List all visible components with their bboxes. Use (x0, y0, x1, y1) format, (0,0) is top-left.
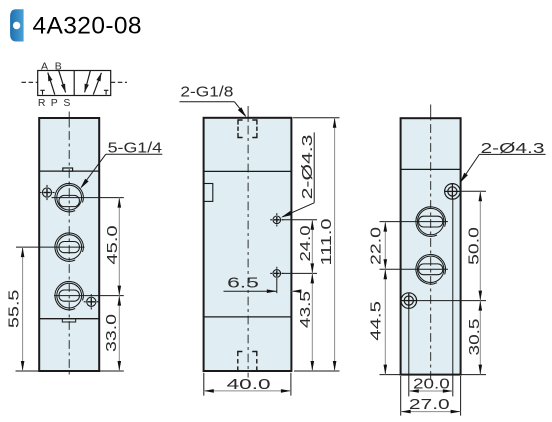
extension line port R (54, 295, 124, 297)
extension line cbore down left (408, 308, 410, 396)
extension line lower hole (282, 272, 317, 274)
svg-text:43.5: 43.5 (297, 291, 314, 328)
counterbore screw hole bottom-left (401, 293, 417, 309)
flow arrow right cell down (85, 71, 91, 93)
middle view centerline (247, 106, 249, 378)
flow arrow left cell up (48, 73, 55, 95)
dimension 20.0 (409, 376, 453, 393)
screw hole upper-left left view (39, 185, 54, 200)
right view section line (401, 168, 461, 170)
flow arrow left cell down (59, 71, 66, 93)
extension line middle top (293, 117, 340, 119)
dimension 45.0 (104, 198, 121, 296)
mount hole lower middle view (270, 267, 283, 280)
svg-text:P: P (51, 97, 58, 109)
left view centerline (68, 112, 70, 375)
pilot dashed line left (22, 81, 38, 83)
svg-text:2-Ø4.3: 2-Ø4.3 (299, 135, 316, 200)
right view body (401, 118, 461, 374)
svg-text:6.5: 6.5 (227, 275, 259, 292)
extension line 27 left (400, 376, 402, 416)
svg-text:24.0: 24.0 (297, 225, 314, 261)
port side view upper (G1/4) (416, 207, 446, 237)
extension line port P (16, 246, 85, 248)
extension line port top right view (380, 221, 449, 223)
counterbore screw hole top-right (445, 184, 461, 200)
svg-text:B: B (55, 60, 62, 72)
svg-text:111.0: 111.0 (318, 219, 335, 266)
exhaust T mark left cell (40, 90, 45, 94)
label 2-Ø4.3 rotated (281, 132, 316, 217)
svg-text:R: R (38, 97, 46, 109)
pilot dashed line right (111, 81, 127, 83)
extension line bottom left corner (203, 373, 205, 396)
port side view lower (G1/4) (416, 255, 446, 285)
dimension 40.0 (204, 376, 291, 393)
dimension 50.0 (466, 191, 483, 300)
middle view bottom section line (204, 316, 292, 318)
hidden port square top (238, 120, 257, 138)
extension line middle bottom (294, 370, 340, 372)
label 5-G1/4 (80, 140, 162, 189)
svg-text:30.5: 30.5 (466, 319, 483, 356)
right view centerline (430, 105, 432, 380)
logo bullet (10, 9, 24, 41)
svg-text:4A320-08: 4A320-08 (33, 13, 142, 40)
port P (G1/4) left view (55, 233, 83, 261)
svg-text:22.0: 22.0 (368, 227, 385, 265)
dimension 27.0 (401, 396, 461, 414)
dimension 22.0 (368, 222, 388, 270)
left view bottom notch (62, 319, 75, 322)
extension line bottom cbore hole (416, 300, 486, 302)
port A (G1/4) left view (55, 183, 83, 211)
left view body (39, 118, 99, 371)
extension line port bottom right view (380, 268, 449, 270)
extension line port A (52, 197, 124, 199)
valve symbol divider (73, 71, 75, 96)
label 2-Ø4.3 right view (460, 140, 546, 183)
mount hole upper middle view (270, 213, 283, 226)
svg-text:S: S (63, 97, 70, 109)
dimension 6.5 (224, 275, 302, 294)
valve symbol frame (38, 71, 111, 96)
screw hole lower-right left view (84, 294, 99, 309)
port R (G1/4) left view (55, 281, 83, 309)
svg-text:40.0: 40.0 (227, 376, 271, 393)
dimension 24.0 (297, 220, 314, 274)
extension line bottom right corner (290, 373, 292, 396)
left view bottom section line (39, 318, 99, 320)
svg-text:45.0: 45.0 (104, 225, 121, 264)
exhaust T mark right cell (104, 90, 109, 94)
extension line upper hole (282, 219, 317, 221)
dimension 111.0 (318, 118, 337, 371)
right view bottom extension line (380, 374, 487, 376)
dimension 43.5 (297, 273, 314, 371)
left view bottom extension line (16, 370, 124, 372)
svg-text:20.0: 20.0 (413, 376, 450, 393)
svg-text:44.5: 44.5 (368, 301, 385, 341)
dimension 55.5 (5, 247, 24, 371)
left view top notch (63, 168, 73, 171)
middle view top section line (204, 170, 292, 172)
label 2-G1/8 (180, 84, 247, 118)
dimension 44.5 (368, 269, 388, 374)
svg-text:33.0: 33.0 (103, 314, 120, 352)
extension line top cbore hole (461, 190, 486, 192)
dimension 30.5 (466, 301, 483, 375)
svg-text:50.0: 50.0 (466, 227, 483, 265)
dimension 33.0 (103, 296, 121, 371)
extension line 27 right (460, 376, 462, 416)
svg-text:55.5: 55.5 (5, 290, 22, 328)
middle view body (204, 118, 292, 371)
svg-text:2-G1/8: 2-G1/8 (180, 84, 233, 101)
svg-text:A: A (41, 60, 48, 72)
extension line cbore down right (452, 198, 454, 396)
svg-text:27.0: 27.0 (409, 396, 450, 413)
flow arrow right cell up (93, 73, 101, 95)
middle view left edge notch (204, 184, 213, 202)
left view top section line (39, 170, 99, 172)
hidden port square bottom (238, 352, 257, 372)
